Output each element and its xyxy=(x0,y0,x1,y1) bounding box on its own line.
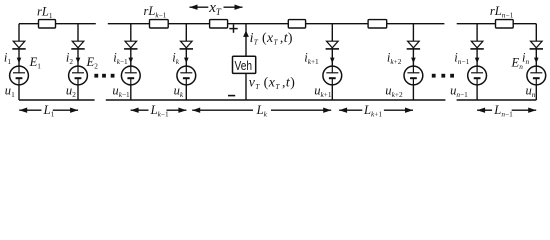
svg-text:vT (xT ,t): vT (xT ,t) xyxy=(249,75,296,92)
svg-text:iT (xT ,t): iT (xT ,t) xyxy=(250,30,293,47)
svg-text:rL1: rL1 xyxy=(37,5,53,21)
svg-text:E2: E2 xyxy=(86,55,99,71)
svg-text:Veh: Veh xyxy=(235,58,253,73)
svg-text:in: in xyxy=(522,50,530,66)
svg-text:ik+1: ik+1 xyxy=(304,50,319,66)
svg-text:un−1: un−1 xyxy=(450,84,468,100)
svg-text:xT: xT xyxy=(208,0,222,17)
svg-text:L1: L1 xyxy=(43,103,55,119)
svg-text:rLk−1: rLk−1 xyxy=(144,4,167,20)
svg-text:i2: i2 xyxy=(66,50,74,66)
svg-text:i1: i1 xyxy=(4,50,11,66)
svg-text:u1: u1 xyxy=(5,83,15,99)
svg-text:ik−1: ik−1 xyxy=(113,50,128,66)
svg-text:E1: E1 xyxy=(29,55,42,71)
svg-text:in−1: in−1 xyxy=(454,50,469,66)
svg-text:rLn−1: rLn−1 xyxy=(490,4,514,20)
svg-text:Lk+1: Lk+1 xyxy=(363,103,382,119)
svg-text:Ln−1: Ln−1 xyxy=(493,103,513,119)
svg-text:u2: u2 xyxy=(66,83,76,99)
svg-text:uk+1: uk+1 xyxy=(314,84,332,100)
svg-text:uk: uk xyxy=(174,84,184,100)
svg-text:uk−1: uk−1 xyxy=(112,84,130,100)
svg-text:ik+2: ik+2 xyxy=(387,50,402,66)
svg-text:un: un xyxy=(526,83,536,99)
svg-text:uk+2: uk+2 xyxy=(385,84,403,100)
svg-text:Lk: Lk xyxy=(256,103,268,119)
svg-text:Lk−1: Lk−1 xyxy=(150,103,169,119)
svg-text:ik: ik xyxy=(172,50,180,66)
